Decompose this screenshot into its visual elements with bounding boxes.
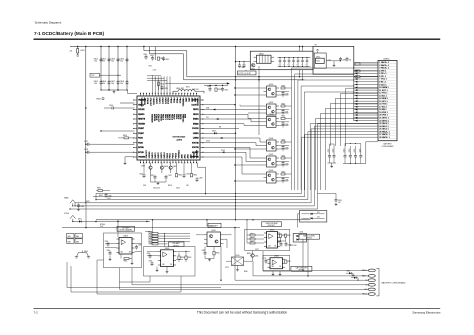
svg-text:2 PACK+ 1: 2 PACK+ 1 — [379, 64, 390, 67]
svg-text:PADC3: PADC3 — [160, 153, 163, 159]
resistor R830 on bus — [96, 188, 110, 192]
wire zener box feed — [298, 214, 300, 228]
resistor R854 — [284, 234, 290, 237]
resistor R853 — [279, 234, 285, 237]
svg-text:Q802: Q802 — [269, 102, 273, 104]
op-amp U804 — [158, 248, 176, 267]
capacitor C870 — [285, 242, 292, 247]
svg-text:VB: VB — [315, 45, 317, 47]
svg-text:C845: C845 — [285, 180, 289, 182]
wire DCDC bottom stubs — [300, 70, 304, 81]
svg-text:C814: C814 — [207, 86, 211, 88]
wire long bus y202.8 — [75, 202, 311, 203]
wire IC right y147.5 — [203, 148, 264, 159]
svg-text:SDATIO: SDATIO — [138, 113, 145, 116]
capacitor group 2 rotated labels — [344, 149, 362, 153]
op-amp U805 — [264, 230, 280, 249]
label box 2ND BATT DETECT — [169, 242, 185, 248]
wire box1 internal — [105, 244, 142, 265]
capacitor C814 — [207, 86, 212, 92]
wire box2 internal — [147, 251, 190, 262]
svg-text:ADJSET: ADJSET — [192, 151, 198, 154]
svg-text:U806: U806 — [274, 256, 279, 258]
svg-text:U802: U802 — [316, 56, 320, 58]
svg-text:R859 10K: R859 10K — [290, 245, 297, 247]
wire long bus y193.5 — [96, 193, 302, 194]
IC U801 second-row pin names — [151, 114, 187, 123]
resistor R834 — [178, 256, 185, 259]
svg-text:104: 104 — [94, 61, 97, 63]
ground below IC 1 — [151, 173, 167, 185]
wire cap-bank column 3 — [117, 47, 118, 91]
svg-text:R816: R816 — [168, 185, 172, 187]
capacitor C868 — [202, 247, 207, 256]
svg-text:R835: R835 — [188, 257, 192, 259]
capacitor C822 — [165, 175, 172, 180]
IC U801 bottom pins — [140, 160, 197, 163]
svg-text:R825: R825 — [282, 171, 286, 173]
capacitor C856 — [359, 146, 362, 164]
svg-text:AIN1: AIN1 — [184, 154, 187, 158]
svg-text:104: 104 — [349, 59, 352, 61]
capacitor C821 — [150, 175, 156, 180]
resistor R820 — [281, 85, 292, 89]
svg-text:FBCK1: FBCK1 — [193, 109, 199, 111]
wire IC right y123.75 — [203, 124, 264, 126]
capacitor C867 — [149, 261, 154, 266]
svg-text:27 PACK- 1: 27 PACK- 1 — [379, 133, 390, 136]
capacitor C845 — [279, 177, 289, 183]
wire IC left feed y131 — [100, 90, 134, 132]
IC Q810 battery switch — [204, 230, 224, 247]
svg-text:R832: R832 — [86, 201, 90, 203]
node VBAT flag 2 — [64, 213, 76, 221]
svg-text:3B: 3B — [279, 266, 281, 268]
zener box D812 — [300, 211, 327, 223]
resistor R855 — [285, 260, 291, 263]
svg-text:CONN BOARD: CONN BOARD — [381, 145, 394, 148]
svg-text:R820: R820 — [282, 85, 286, 87]
svg-text:1 PACK+ 1: 1 PACK+ 1 — [379, 61, 390, 64]
wire connector pin bus x353.8 — [353, 74, 355, 121]
svg-text:R854: R854 — [287, 235, 291, 237]
svg-text:DZ2: DZ2 — [317, 216, 320, 218]
wire oval line 5 — [120, 268, 369, 290]
svg-text:Samsung Electronics: Samsung Electronics — [412, 310, 441, 314]
svg-text:R841: R841 — [150, 235, 153, 237]
svg-text:R858: R858 — [247, 253, 251, 255]
IC U801 left pin names — [138, 99, 147, 159]
svg-text:-Q0R0: -Q0R0 — [176, 140, 183, 142]
wire cap-bank bottom rail — [101, 89, 128, 90]
svg-text:BATTERY CONN BOARD: BATTERY CONN BOARD — [382, 281, 407, 284]
svg-text:7042: 7042 — [316, 61, 320, 63]
capacitor C859 to ground — [335, 194, 342, 206]
wire IC right y142.75 — [203, 143, 264, 146]
node bus labels — [86, 195, 111, 203]
capacitor C811 — [150, 55, 154, 60]
wire cap-bank column 1 — [100, 47, 101, 91]
svg-text:C854: C854 — [349, 149, 351, 153]
title 7-1 DCDC/Battery (Main B PCB) — [34, 31, 104, 36]
svg-text:R833: R833 — [124, 261, 128, 263]
capacitor C801 — [93, 58, 102, 63]
svg-text:Q808: Q808 — [164, 166, 168, 168]
transistor Q820 — [251, 63, 255, 70]
wire IC right y157 to column — [203, 157, 264, 174]
capacitor C837 — [346, 57, 352, 62]
svg-text:INT1IN: INT1IN — [138, 152, 144, 154]
capacitor C802 — [101, 58, 110, 63]
capacitor C836 — [305, 58, 308, 67]
svg-text:PBIO1: PBIO1 — [175, 114, 177, 119]
sub-circuit box 1 outline — [104, 233, 142, 268]
node labels above inductor — [186, 87, 199, 91]
svg-text:D802: D802 — [212, 130, 216, 132]
resistor ladder R840-R844 — [145, 220, 190, 247]
svg-text:AIN1: AIN1 — [187, 98, 190, 102]
capacitor C833 — [292, 58, 295, 67]
ground U804 B — [166, 267, 169, 274]
DCDC converter box outline — [250, 51, 313, 69]
reset box outline — [313, 46, 354, 74]
node SUB BAT tag — [208, 223, 221, 227]
ground Q810 — [205, 255, 214, 261]
svg-text:R836: R836 — [216, 253, 220, 255]
wire Q804 right leads — [279, 146, 289, 150]
svg-text:VDDC1: VDDC1 — [138, 104, 144, 106]
transistor Q811 — [249, 251, 258, 262]
svg-text:C853: C853 — [344, 149, 346, 153]
wire bundle verticals — [292, 67, 355, 190]
wire Q810 right leads — [224, 235, 232, 248]
capacitor C871 — [263, 258, 268, 263]
wire +B rail — [77, 46, 313, 47]
svg-text:PBIO3: PBIO3 — [179, 98, 181, 104]
svg-text:PBIO3: PBIO3 — [176, 153, 178, 158]
svg-text:C843: C843 — [285, 148, 289, 150]
pad P2 battery terminal — [362, 275, 375, 278]
capacitor C823 — [183, 163, 190, 178]
svg-text:C827 104: C827 104 — [192, 89, 199, 91]
svg-text:AIN0: AIN0 — [184, 98, 187, 102]
fuse F801 — [76, 47, 84, 57]
svg-text:R813: R813 — [123, 135, 127, 137]
svg-text:LXSW1: LXSW1 — [193, 133, 199, 135]
wire oval line 3 — [235, 228, 368, 281]
svg-text:RESETB: RESETB — [138, 119, 146, 121]
wire bus drop to box3 — [246, 219, 247, 235]
svg-text:+: + — [278, 64, 279, 66]
svg-text:+: + — [305, 64, 306, 66]
node misc bottom labels — [225, 245, 297, 273]
svg-text:R851: R851 — [251, 237, 254, 239]
wire IC right y109.5 to column — [203, 109, 264, 111]
svg-text:3 PACK+ 1: 3 PACK+ 1 — [379, 67, 390, 70]
svg-text:R843: R843 — [150, 240, 153, 242]
svg-text:VSS: VSS — [143, 185, 146, 187]
svg-text:+: + — [301, 64, 302, 66]
svg-text:PACK+: PACK+ — [362, 269, 368, 272]
svg-text:C856: C856 — [360, 149, 362, 153]
svg-text:TESTEN: TESTEN — [138, 123, 145, 125]
label box 1ST BATT DETECT — [117, 226, 135, 231]
svg-text:CN801: CN801 — [383, 58, 390, 60]
capacitor C807 — [110, 80, 119, 85]
svg-text:PBIO0: PBIO0 — [170, 98, 172, 104]
svg-text:XTALOUT: XTALOUT — [149, 98, 152, 107]
svg-text:S1P2507A01: S1P2507A01 — [173, 136, 187, 139]
svg-text:C871: C871 — [263, 258, 267, 260]
wire bus y219.8 — [96, 219, 310, 220]
capacitor C854 — [349, 146, 352, 164]
resistor R856 to connector — [355, 76, 378, 78]
svg-text:C815: C815 — [224, 89, 228, 91]
svg-text:Q806: Q806 — [269, 170, 273, 172]
IC Q801 dual-FET — [264, 84, 280, 97]
pad P5 battery terminal — [364, 288, 375, 291]
resistor ladder box3 — [247, 233, 264, 244]
sub-box regulator — [314, 53, 326, 68]
wire DCDC top stubs — [300, 47, 303, 52]
wire y83.5 with arrow — [165, 82, 230, 84]
resistor R835 — [185, 256, 192, 259]
svg-text:10 DATA 1: 10 DATA 1 — [379, 86, 389, 89]
svg-text:104: 104 — [111, 61, 114, 63]
svg-text:C844: C844 — [285, 164, 289, 166]
inductor L801 — [173, 88, 204, 94]
svg-text:VO33: VO33 — [221, 150, 225, 152]
capacitor C805 — [93, 80, 102, 85]
transformer T801 — [254, 52, 275, 63]
svg-text:Schematic Diagrams: Schematic Diagrams — [35, 21, 62, 25]
capacitor C842 — [279, 121, 289, 127]
IC U801 top pin names — [140, 98, 199, 108]
svg-text:C841: C841 — [285, 112, 289, 114]
wire oval line 6 — [97, 260, 368, 294]
wire cap-bank column 4 — [126, 47, 127, 91]
svg-text:Q804: Q804 — [269, 138, 273, 140]
capacitor C815 — [221, 87, 228, 92]
IC Q806 dual-FET — [264, 170, 280, 183]
wire x221 vertical — [220, 244, 221, 281]
wire cap-bank column 2 — [108, 47, 109, 91]
capacitor C813 — [161, 85, 168, 90]
svg-text:P11INT: P11INT — [138, 133, 144, 135]
capacitor C864 — [107, 250, 112, 255]
svg-text:7-1 DCDC/Battery (Main B PCB): 7-1 DCDC/Battery (Main B PCB) — [34, 31, 104, 36]
resistor R821 — [281, 103, 292, 107]
svg-text:3B: 3B — [274, 246, 276, 248]
capacitor C835 — [328, 57, 347, 62]
svg-text:Q820: Q820 — [251, 68, 255, 70]
IC U801 part number — [173, 136, 187, 142]
connector CN801 sub label — [381, 143, 394, 149]
svg-text:C811: C811 — [150, 55, 154, 57]
diode D801 — [72, 219, 150, 223]
svg-text:R842: R842 — [150, 237, 153, 239]
svg-text:R814: R814 — [178, 175, 182, 177]
svg-text:R844: R844 — [150, 242, 153, 244]
op-amp U806 — [267, 256, 285, 269]
svg-text:C864: C864 — [107, 250, 111, 252]
svg-text:C851: C851 — [328, 149, 330, 153]
svg-text:R860: R860 — [244, 271, 248, 273]
IC Q803 dual-FET — [264, 114, 280, 127]
pad P4 battery terminal — [366, 283, 376, 286]
svg-text:ENAB1: ENAB1 — [193, 118, 199, 121]
resistor R810 — [157, 57, 164, 60]
svg-text:R852: R852 — [251, 241, 254, 243]
wire box B internals — [326, 57, 341, 67]
svg-text:R855: R855 — [287, 261, 291, 263]
wire long bus y205.9 — [74, 205, 314, 206]
capacitor C840 — [279, 91, 289, 97]
capacitor C810 — [143, 54, 147, 59]
wire staircase routes from connector pins — [310, 88, 378, 190]
svg-text:PBIO2: PBIO2 — [173, 153, 175, 158]
label BATTERY CONN BOARD — [382, 281, 407, 284]
svg-text:C812: C812 — [165, 59, 169, 61]
svg-text:14 SDA 1: 14 SDA 1 — [379, 97, 388, 100]
svg-text:C817: C817 — [84, 141, 88, 143]
svg-text:PADC2: PADC2 — [157, 153, 160, 159]
svg-text:+: + — [287, 64, 288, 66]
svg-text:Q801: Q801 — [269, 84, 273, 86]
svg-text:VOUT18: VOUT18 — [192, 142, 199, 144]
header rule — [34, 39, 441, 40]
svg-text:C868: C868 — [202, 250, 206, 252]
svg-text:C863: C863 — [105, 241, 109, 243]
wire column left leads — [234, 87, 263, 181]
wire bus left stubs — [70, 194, 96, 213]
svg-text:104: 104 — [102, 83, 105, 85]
wire IC right y114.25 — [203, 114, 264, 118]
resistor R824 — [281, 155, 292, 159]
connector CN801 pin rows — [378, 61, 397, 139]
svg-text:XTALIN: XTALIN — [146, 98, 149, 105]
svg-text:R823: R823 — [282, 139, 286, 141]
svg-text:104: 104 — [102, 61, 105, 63]
svg-text:C822: C822 — [168, 175, 172, 177]
resistor R823 — [281, 139, 292, 143]
svg-text:PROTECT: PROTECT — [268, 225, 276, 227]
svg-text:C818: C818 — [84, 149, 88, 151]
svg-text:VCHG: VCHG — [64, 213, 70, 215]
svg-text:C836: C836 — [342, 59, 346, 61]
capacitor C832 — [287, 58, 290, 67]
wire Q801 right leads — [279, 92, 289, 96]
wire bus x259 — [258, 66, 259, 135]
svg-text:VOUT33: VOUT33 — [192, 147, 199, 149]
svg-text:VSSDIG: VSSDIG — [159, 114, 161, 121]
svg-text:VBATSEN: VBATSEN — [138, 99, 147, 102]
svg-text:26 PACK- 1: 26 PACK- 1 — [379, 130, 390, 133]
svg-text:EN: EN — [219, 126, 221, 128]
svg-text:C821: C821 — [150, 175, 154, 177]
svg-text:INT0IN: INT0IN — [138, 147, 144, 149]
diode bridge D810 — [226, 255, 249, 271]
svg-text:C820: C820 — [139, 174, 143, 176]
svg-text:C852: C852 — [333, 149, 335, 153]
capacitor C838 — [238, 62, 245, 69]
svg-text:R850: R850 — [251, 233, 254, 235]
node +B input — [69, 47, 78, 53]
svg-text:104: 104 — [338, 202, 341, 204]
svg-text:D813: D813 — [347, 271, 351, 273]
node SA option table — [67, 234, 83, 244]
svg-text:C865: C865 — [138, 245, 142, 247]
svg-text:C866: C866 — [147, 253, 151, 255]
capacitor C843 — [279, 145, 289, 151]
wire IC right y128.5 to column — [203, 128, 239, 130]
svg-text:C810: C810 — [143, 54, 147, 56]
svg-text:PBIO3: PBIO3 — [179, 114, 181, 119]
svg-text:PADC1: PADC1 — [154, 153, 157, 159]
svg-text:D810: D810 — [235, 255, 239, 257]
svg-text:R831: R831 — [99, 195, 103, 197]
capacitor C852 — [333, 146, 336, 163]
svg-text:R824: R824 — [282, 155, 286, 157]
capacitor C855 — [354, 146, 357, 164]
wire oval line 4 — [132, 268, 368, 285]
resistor R833 — [124, 258, 130, 263]
svg-text:PACK-: PACK- — [362, 293, 368, 296]
capacitor C812 — [162, 56, 169, 61]
svg-text:VSSANA: VSSANA — [138, 156, 146, 159]
wire wrap bus B — [150, 47, 305, 81]
IC Q802 dual-FET — [264, 102, 280, 115]
wire bus y227.6 — [62, 227, 240, 230]
wire IC right y104.75 to bus — [203, 104, 236, 105]
wire Q806 right leads — [279, 178, 289, 182]
svg-text:XTALOUT: XTALOUT — [145, 149, 148, 158]
svg-text:PGOOD: PGOOD — [192, 128, 199, 130]
label box CAP OVER CHG DETECT — [291, 266, 312, 271]
svg-text:Q809: Q809 — [173, 166, 177, 168]
capacitor C835 — [301, 58, 304, 67]
capacitor C851 — [328, 146, 331, 163]
wire bottom extra L A — [67, 262, 222, 288]
wire IC left feed y156 — [124, 157, 135, 165]
capacitor C869 — [278, 241, 283, 246]
sub-circuit box 3 outline — [245, 229, 290, 250]
svg-text:C859: C859 — [338, 200, 342, 202]
svg-text:104: 104 — [120, 61, 123, 63]
label box OVER VOLTAGE PROTECT — [262, 222, 282, 227]
svg-text:PADC1: PADC1 — [158, 98, 161, 104]
DCDC tag box — [238, 70, 257, 75]
svg-text:R853: R853 — [282, 235, 286, 237]
svg-text:PADC2: PADC2 — [161, 98, 164, 104]
svg-text:SCL: SCL — [206, 117, 209, 119]
svg-text:VO18: VO18 — [206, 141, 210, 143]
wire Q802 right leads — [279, 110, 289, 114]
wire above-IC rail — [204, 85, 228, 86]
svg-text:Q811: Q811 — [255, 255, 259, 257]
wire pad bracket — [376, 268, 379, 296]
capacitor C806 — [101, 80, 110, 85]
svg-text:R821: R821 — [282, 103, 286, 105]
wire feeds to IC top pins — [147, 75, 170, 93]
IC U801 bottom pin names — [145, 149, 198, 158]
wire bottom extra L B — [71, 266, 181, 292]
svg-text:P13IO: P13IO — [138, 142, 143, 144]
capacitor C808 — [119, 80, 128, 85]
transistor Q807 — [141, 163, 152, 173]
svg-text:AIN2: AIN2 — [186, 154, 189, 158]
svg-text:AIN0: AIN0 — [184, 114, 187, 118]
